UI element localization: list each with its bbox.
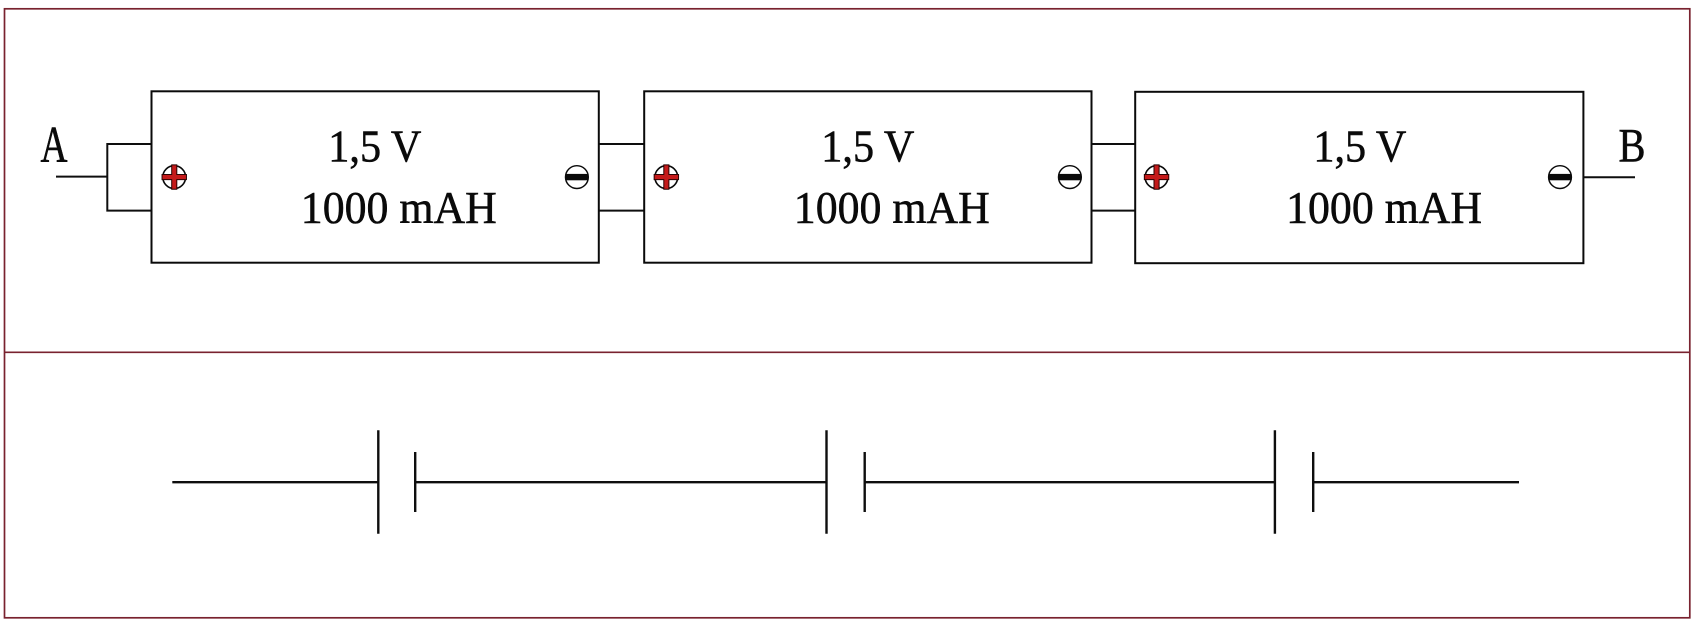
battery BT3 box <box>1135 92 1583 263</box>
svg-text:1000 mAH: 1000 mAH <box>794 182 990 233</box>
wire BT1-BT2 top <box>599 143 645 145</box>
battery BT3 plus terminal <box>1144 165 1168 189</box>
battery BT2 box <box>644 91 1091 262</box>
cell G3 long plate <box>1274 430 1276 534</box>
cell G1 long plate <box>377 430 379 534</box>
bracket joint at battery BT1 + terminal <box>107 144 151 211</box>
battery BT2 plus terminal <box>654 165 678 189</box>
schematic wire segment 3 <box>865 481 1275 483</box>
battery BT3 minus terminal <box>1549 166 1572 189</box>
cell G2 short plate <box>864 452 866 512</box>
wire to node B <box>1584 176 1636 178</box>
battery BT1 minus terminal <box>566 166 589 189</box>
battery BT1 box <box>152 91 599 262</box>
section divider line <box>4 351 1690 353</box>
wire BT2-BT3 bottom <box>1092 210 1136 212</box>
cell G1 short plate <box>414 452 416 512</box>
schematic wire segment 4 <box>1313 481 1519 483</box>
schematic wire segment 1 <box>172 481 378 483</box>
cell G3 short plate <box>1312 452 1314 512</box>
svg-text:B: B <box>1619 119 1646 172</box>
svg-text:1,5 V: 1,5 V <box>821 121 914 172</box>
svg-text:A: A <box>41 117 68 174</box>
cell G2 long plate <box>825 430 827 534</box>
svg-text:1,5 V: 1,5 V <box>1313 121 1406 172</box>
svg-text:1000 mAH: 1000 mAH <box>301 182 497 233</box>
svg-text:1,5 V: 1,5 V <box>328 121 421 172</box>
wire from node A <box>56 176 107 178</box>
battery BT1 plus terminal <box>162 165 186 189</box>
svg-text:1000 mAH: 1000 mAH <box>1286 182 1482 233</box>
wire BT2-BT3 top <box>1092 143 1136 145</box>
wire BT1-BT2 bottom <box>599 210 645 212</box>
schematic wire segment 2 <box>415 481 826 483</box>
battery BT2 minus terminal <box>1059 166 1082 189</box>
